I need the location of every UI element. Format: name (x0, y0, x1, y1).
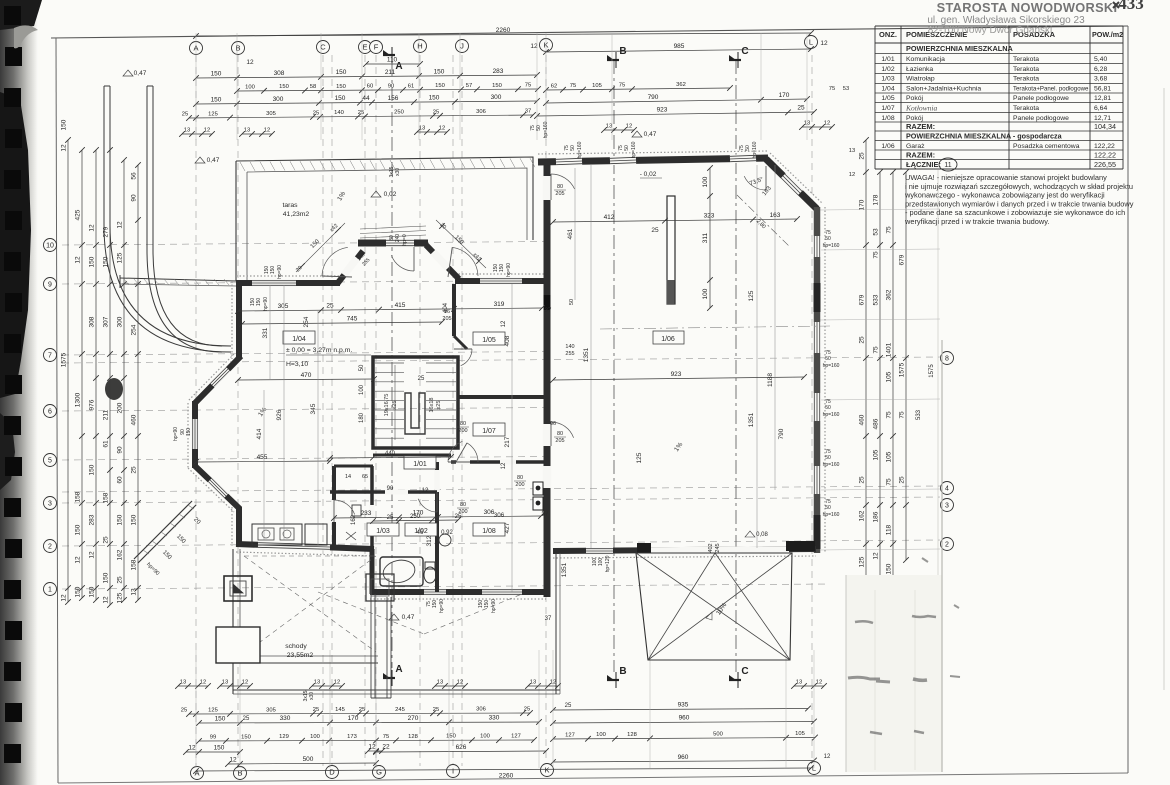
svg-text:105: 105 (886, 371, 893, 382)
windows bathroom south (424, 588, 446, 595)
svg-text:127: 127 (565, 732, 575, 738)
svg-text:150: 150 (484, 600, 490, 609)
svg-text:150: 150 (89, 586, 96, 597)
dim row hall 440 (330, 457, 451, 458)
interior wall 1/05 west (452, 284, 456, 336)
dim chain 935 (553, 709, 808, 711)
room label 1/02 (405, 523, 437, 536)
svg-text:25: 25 (243, 716, 250, 722)
grid bubble 6 left (44, 405, 57, 418)
svg-text:923: 923 (657, 107, 668, 114)
svg-text:hp=90: hp=90 (277, 265, 283, 279)
dim chain row 150-330-170-270-330 (199, 722, 539, 723)
svg-text:150: 150 (211, 70, 222, 77)
dim chain 960 bottom2 (553, 761, 814, 763)
svg-text:60: 60 (367, 84, 373, 90)
svg-text:186: 186 (873, 511, 880, 522)
svg-text:173: 173 (347, 734, 357, 740)
svg-text:50: 50 (745, 145, 751, 151)
garage dim vertical 125 (756, 165, 758, 548)
svg-text:125: 125 (636, 452, 643, 463)
svg-text:44: 44 (362, 95, 370, 102)
scan artifact blob left (105, 378, 123, 400)
svg-text:150: 150 (270, 266, 276, 275)
svg-text:10: 10 (46, 243, 54, 250)
drain funnel symbol (224, 576, 252, 601)
svg-text:J: J (460, 42, 464, 51)
svg-text:hp=160: hp=160 (823, 363, 840, 369)
interior wall y492 (330, 490, 437, 494)
svg-text:90: 90 (117, 446, 124, 454)
svg-text:ONZ.: ONZ. (879, 30, 897, 39)
svg-text:283: 283 (493, 68, 504, 75)
svg-text:Kotłownia: Kotłownia (905, 104, 938, 113)
svg-text:1/03: 1/03 (376, 528, 390, 535)
svg-text:99: 99 (210, 735, 216, 741)
svg-text:245: 245 (715, 543, 721, 552)
retaining wall diagonal SW (138, 505, 196, 563)
bathroom bay south wall (370, 589, 546, 595)
right dim chain x866 (865, 140, 867, 580)
svg-text:1300: 1300 (75, 392, 82, 407)
svg-text:25: 25 (131, 466, 138, 474)
ramp trapezoid (636, 553, 792, 660)
svg-text:E: E (362, 43, 367, 52)
svg-text:960: 960 (678, 754, 689, 761)
svg-text:427: 427 (504, 522, 511, 533)
svg-text:150: 150 (89, 256, 96, 267)
svg-text:13: 13 (530, 680, 536, 686)
grid bubble B bottom (234, 767, 247, 780)
svg-text:6,64: 6,64 (1094, 105, 1107, 112)
svg-text:Komunikacja: Komunikacja (906, 56, 945, 63)
svg-text:13: 13 (606, 124, 612, 130)
svg-text:90: 90 (387, 486, 394, 492)
scan smudge streaks (848, 558, 960, 734)
svg-text:0,47: 0,47 (207, 157, 220, 164)
section flag B bottom (607, 679, 619, 681)
svg-text:- 0,02: - 0,02 (640, 171, 657, 178)
svg-text:12: 12 (849, 172, 855, 178)
svg-text:hp=160: hp=160 (631, 141, 637, 158)
bathroom bay west wall (370, 549, 375, 594)
svg-text:56,81: 56,81 (1094, 85, 1111, 92)
svg-text:RAZEM:: RAZEM: (906, 122, 935, 131)
svg-text:B: B (619, 666, 626, 677)
svg-text:105: 105 (873, 449, 880, 460)
door gap left diagonal (344, 258, 357, 275)
grid bubble 3 right (941, 499, 954, 512)
svg-text:240: 240 (395, 234, 401, 243)
svg-text:12: 12 (103, 596, 110, 604)
window west diagonal upper (212, 369, 228, 385)
section flag C top (729, 59, 741, 61)
northwest terrace retaining wall (120, 278, 236, 281)
garage east wall dark block upper (814, 283, 821, 312)
svg-text:1/01: 1/01 (413, 461, 427, 468)
stairs treads left run (375, 362, 404, 364)
svg-text:wykonawczego - wykonawca zobow: wykonawczego - wykonawca zobowiązany jes… (904, 191, 1105, 200)
grid bubble C top (317, 41, 330, 54)
svg-text:790: 790 (648, 94, 659, 101)
svg-text:25: 25 (859, 336, 866, 344)
svg-text:75: 75 (829, 86, 835, 92)
svg-text:13: 13 (222, 680, 228, 686)
svg-text:408: 408 (504, 335, 511, 346)
grid bubble 3 left (44, 497, 57, 510)
svg-text:12: 12 (89, 551, 96, 559)
svg-text:626: 626 (456, 744, 467, 751)
door arc garage NE (744, 176, 766, 190)
svg-text:125: 125 (208, 707, 218, 713)
dim chain row 150-308-150-211-150-283 (196, 75, 537, 78)
garage west wall door gap 2 (543, 424, 552, 446)
fridge (305, 524, 327, 545)
svg-text:1/01: 1/01 (881, 56, 894, 63)
svg-text:25: 25 (797, 105, 805, 112)
svg-text:150: 150 (61, 119, 68, 130)
svg-text:402: 402 (708, 543, 714, 552)
svg-text:hp=90: hp=90 (506, 263, 512, 277)
svg-text:12: 12 (75, 256, 82, 264)
svg-text:162: 162 (351, 514, 357, 525)
svg-text:125: 125 (117, 252, 124, 263)
west diagonal upper bay (195, 356, 241, 403)
door arc hall east (448, 441, 463, 462)
svg-text:H=3,10: H=3,10 (286, 361, 308, 368)
svg-text:80: 80 (460, 421, 466, 427)
svg-text:170: 170 (779, 92, 790, 99)
window west bay (191, 419, 198, 449)
garage chimney stub (667, 196, 675, 304)
svg-text:976: 976 (89, 399, 96, 410)
svg-text:245: 245 (395, 707, 405, 713)
interior wall x437 (435, 462, 439, 592)
svg-text:150: 150 (429, 94, 440, 101)
dim chain row 99-150-129-100-173-75-128-150-100-127 (199, 740, 534, 741)
svg-text:61: 61 (103, 440, 110, 448)
left dim chain x124 (123, 160, 125, 600)
svg-text:1/07: 1/07 (482, 428, 496, 435)
door arc west terrace doors right (452, 247, 478, 276)
svg-text:158: 158 (75, 491, 82, 502)
dim chain 12-150 bottom (186, 751, 240, 753)
svg-text:50: 50 (569, 299, 575, 305)
svg-text:23,55m2: 23,55m2 (287, 652, 314, 659)
dim chain row fine left (237, 89, 538, 91)
svg-text:2: 2 (945, 542, 949, 549)
svg-text:200: 200 (458, 509, 467, 515)
svg-text:1/04: 1/04 (292, 336, 306, 343)
svg-text:790: 790 (778, 428, 785, 439)
svg-text:0,92: 0,92 (441, 530, 453, 536)
grid bubble 1 left (44, 583, 57, 596)
svg-text:125: 125 (859, 556, 866, 567)
svg-text:455: 455 (257, 454, 268, 461)
svg-text:Wiatrołap: Wiatrołap (906, 76, 935, 83)
svg-text:13: 13 (131, 588, 138, 596)
scan faint vertical fold (937, 170, 939, 575)
svg-text:Posadzka cementowa: Posadzka cementowa (1013, 143, 1080, 150)
svg-text:Pokój: Pokój (906, 95, 923, 102)
svg-text:B: B (235, 44, 240, 53)
interior wall 1/05-1/07 (457, 395, 544, 399)
grid bubble 10 left (44, 239, 57, 252)
door arc hall west (467, 443, 478, 462)
west wall lower (236, 507, 242, 544)
svg-text:POWIERZCHNIA MIESZKALNA: POWIERZCHNIA MIESZKALNA (906, 44, 1013, 53)
svg-text:679: 679 (859, 294, 866, 305)
svg-text:90: 90 (388, 84, 394, 90)
svg-text:25: 25 (326, 303, 334, 310)
svg-text:150: 150 (499, 264, 505, 273)
section flag A bottom (383, 677, 395, 679)
svg-text:75: 75 (873, 251, 880, 259)
svg-text:12: 12 (242, 680, 248, 686)
driveway curve outer pair (104, 86, 231, 352)
svg-text:226,55: 226,55 (1094, 160, 1116, 169)
svg-text:12: 12 (457, 680, 463, 686)
svg-text:2: 2 (48, 544, 52, 551)
svg-text:75: 75 (886, 226, 893, 234)
svg-text:5,40: 5,40 (1094, 56, 1107, 63)
svg-text:211: 211 (103, 409, 110, 420)
garage east wall dark block lower (814, 515, 821, 549)
washbasin (439, 534, 451, 546)
svg-text:461: 461 (567, 228, 574, 239)
stairs direction line (394, 365, 396, 440)
window south kitchen (258, 545, 330, 547)
svg-text:3: 3 (48, 501, 52, 508)
svg-text:75: 75 (619, 83, 625, 89)
svg-text:205: 205 (555, 438, 564, 444)
svg-text:75: 75 (899, 411, 906, 419)
door arc bathroom (418, 499, 437, 512)
svg-text:533: 533 (873, 294, 880, 305)
sheet border bottom (58, 773, 1128, 783)
svg-text:przedstawionych wymiarów i dan: przedstawionych wymiarów i danych przed … (905, 199, 1134, 208)
svg-text:283: 283 (89, 514, 96, 525)
svg-text:96: 96 (550, 421, 556, 427)
svg-text:254: 254 (131, 324, 138, 335)
svg-text:345: 345 (310, 403, 317, 414)
svg-text:62: 62 (551, 83, 557, 89)
svg-text:1/06: 1/06 (881, 143, 894, 150)
svg-text:50: 50 (825, 356, 831, 362)
svg-text:25: 25 (651, 227, 659, 234)
svg-text:25: 25 (387, 515, 394, 521)
svg-text:533: 533 (916, 409, 922, 420)
garage axis dash-dot y327 (600, 326, 830, 329)
svg-text:50: 50 (570, 145, 576, 151)
sheet border right (1127, 26, 1129, 773)
svg-text:82-100 Nowy Dwór Gdański: 82-100 Nowy Dwór Gdański (928, 25, 1053, 36)
porch door gap (386, 239, 414, 247)
grid row 1 dashed (62, 584, 830, 589)
svg-text:150: 150 (335, 95, 346, 102)
svg-text:150: 150 (432, 600, 438, 609)
svg-text:425: 425 (75, 209, 82, 220)
svg-text:150: 150 (446, 734, 456, 740)
svg-text:486: 486 (873, 418, 880, 429)
svg-text:1401: 1401 (886, 342, 893, 357)
garage door opening (650, 550, 789, 551)
svg-text:460: 460 (131, 414, 138, 425)
svg-text:12: 12 (334, 680, 340, 686)
svg-text:C: C (741, 666, 748, 677)
grid bubble A bottom (191, 767, 204, 780)
svg-text:250: 250 (394, 110, 404, 116)
svg-text:300: 300 (117, 316, 124, 327)
bathtub (380, 557, 423, 586)
section line C-C vertical (735, 60, 737, 672)
svg-text:12,81: 12,81 (1094, 95, 1111, 102)
svg-text:25: 25 (433, 707, 439, 713)
svg-text:0,47: 0,47 (644, 131, 657, 138)
dim 455 (196, 461, 330, 462)
svg-text:150: 150 (75, 524, 82, 535)
svg-text:± 0,00 = 3,27m n.p.m.: ± 0,00 = 3,27m n.p.m. (286, 347, 352, 354)
svg-text:205: 205 (442, 316, 451, 322)
svg-text:75: 75 (873, 346, 880, 354)
svg-text:75: 75 (570, 83, 576, 89)
svg-text:G: G (376, 768, 382, 777)
door arc porch entry (391, 255, 414, 271)
room label 1/05 (473, 332, 505, 345)
svg-text:16x18: 16x18 (429, 398, 435, 413)
stairs central stringer (405, 393, 425, 434)
svg-text:200: 200 (117, 402, 124, 413)
extension lines bottom (195, 650, 197, 768)
driveway curve inner pair (147, 86, 222, 352)
section line B-B vertical (613, 60, 615, 672)
svg-text:985: 985 (674, 43, 685, 50)
svg-text:58: 58 (310, 84, 316, 90)
garage dim row 412-323-163 (553, 219, 797, 222)
svg-text:hp=120: hp=120 (605, 555, 611, 572)
svg-text:hp=160: hp=160 (752, 141, 758, 158)
svg-text:Terakota: Terakota (1013, 105, 1039, 112)
svg-text:Terakota: Terakota (1013, 56, 1039, 63)
svg-text:65: 65 (362, 474, 368, 480)
svg-text:122,22: 122,22 (1094, 151, 1116, 160)
dim chain 500 bottom (228, 763, 376, 764)
svg-text:150: 150 (492, 83, 502, 89)
svg-text:hp=160: hp=160 (543, 121, 549, 138)
svg-text:12: 12 (439, 126, 445, 132)
svg-text:1/05: 1/05 (482, 337, 496, 344)
svg-text:12: 12 (246, 59, 254, 66)
svg-text:61: 61 (408, 83, 414, 89)
svg-text:25: 25 (899, 476, 906, 484)
svg-text:9: 9 (48, 282, 52, 289)
svg-text:96: 96 (444, 309, 450, 315)
svg-text:hp=90: hp=90 (439, 599, 445, 613)
garage chamfer diagonal dim (737, 195, 790, 247)
door arc 1/05 door (461, 349, 472, 366)
svg-text:926: 926 (276, 409, 283, 420)
dim row y522 stairs (373, 520, 458, 521)
room label 1/07 (473, 423, 505, 436)
garage west wall door gap 1 (543, 176, 552, 200)
grid bubble L top (805, 36, 818, 49)
svg-text:13: 13 (180, 680, 186, 686)
svg-text:13: 13 (849, 148, 855, 154)
grid bubble L bottom (808, 762, 821, 775)
dim row y518 (334, 516, 541, 518)
svg-text:104,34: 104,34 (1094, 122, 1116, 131)
svg-text:25: 25 (433, 109, 439, 115)
svg-text:1/08: 1/08 (482, 528, 496, 535)
svg-text:8: 8 (945, 356, 949, 363)
wall porch to garage (455, 278, 544, 284)
wc small (352, 505, 361, 516)
svg-text:1/03: 1/03 (881, 76, 894, 83)
svg-text:14: 14 (345, 474, 351, 480)
schody outline inner (240, 549, 378, 656)
svg-text:150: 150 (214, 745, 225, 752)
stairs treads right run (426, 362, 456, 364)
planter block (216, 627, 260, 663)
svg-text:80: 80 (460, 502, 466, 508)
svg-text:25: 25 (103, 536, 110, 544)
svg-text:100: 100 (702, 288, 709, 299)
binding edge small bulge lower (0, 413, 15, 490)
svg-text:12: 12 (824, 754, 831, 760)
svg-text:150: 150 (131, 514, 138, 525)
svg-text:37: 37 (545, 308, 552, 314)
grid bubble D bottom (326, 766, 339, 779)
north wall diagonal left porch (337, 251, 363, 284)
svg-text:75: 75 (383, 734, 389, 740)
dim chain 626 (376, 751, 546, 752)
svg-text:150: 150 (435, 83, 445, 89)
grid bubble 9 left (44, 278, 57, 291)
section line A-A vertical (391, 62, 393, 668)
svg-text:122,22: 122,22 (1094, 143, 1115, 150)
svg-text:hp=160: hp=160 (577, 141, 583, 158)
svg-text:1351: 1351 (561, 562, 568, 577)
extension lines top (195, 33, 197, 140)
svg-text:12: 12 (89, 224, 96, 232)
terrace outline inner (247, 168, 527, 240)
svg-text:300: 300 (273, 96, 284, 103)
grid bubble G bottom (373, 766, 386, 779)
svg-text:3,68: 3,68 (1094, 76, 1107, 83)
interior wall hall north (451, 460, 544, 464)
svg-text:60: 60 (117, 476, 124, 484)
svg-text:12: 12 (117, 221, 124, 229)
svg-text:935: 935 (678, 702, 689, 709)
svg-text:150: 150 (117, 514, 124, 525)
grid bubble K bottom (541, 764, 554, 777)
west wall upper (236, 281, 242, 359)
svg-text:2260: 2260 (499, 773, 514, 780)
garage west wall door gap 3 (543, 466, 552, 488)
right dim chain x880 (879, 172, 881, 580)
svg-text:11: 11 (944, 162, 951, 169)
left dim chain x110 (109, 150, 111, 605)
left dim chain x82 (81, 150, 83, 598)
west diagonal lower bay (195, 466, 240, 509)
svg-text:6,28: 6,28 (1094, 66, 1107, 73)
garage door jamb left block (637, 543, 651, 553)
svg-text:319: 319 (494, 301, 505, 308)
porch diagonal right (426, 245, 459, 279)
svg-text:13: 13 (796, 680, 802, 686)
right dim chain x906 (905, 172, 907, 560)
svg-text:412: 412 (604, 214, 615, 221)
